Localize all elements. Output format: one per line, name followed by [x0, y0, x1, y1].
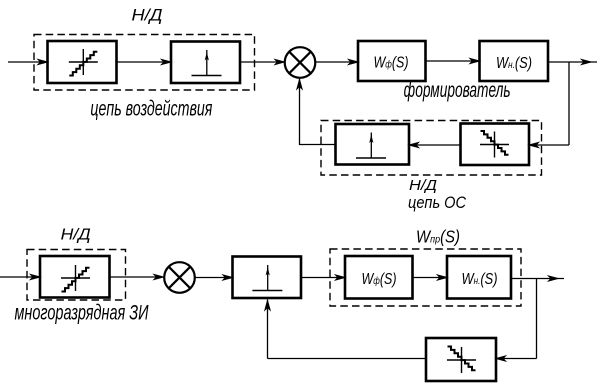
svg-text:Wн.(S): Wн.(S)	[496, 55, 532, 72]
block U3: Wф(S)	[345, 256, 413, 299]
wire: U3 to U4	[413, 275, 448, 280]
wire: A2 to summing junction S1	[240, 59, 285, 64]
wire: A1 to A2	[117, 59, 172, 64]
block A2: impulse element (sampler)	[171, 42, 240, 84]
wire: S1 to W1	[316, 59, 359, 64]
impulse B2 symbol	[252, 265, 282, 291]
dashed box: bottom input Н/Д group	[27, 250, 126, 301]
dashed box: input Н/Д group	[34, 35, 255, 91]
wire: F1 to F2	[409, 142, 461, 147]
block F1: feedback quantizer	[461, 124, 530, 166]
dashed box: W group	[330, 249, 521, 306]
wire: B2 to U3	[301, 275, 345, 280]
svg-text:цепь воздействия: цепь воздействия	[90, 97, 212, 120]
block U2: Wн(S)	[480, 41, 549, 81]
wire: output of U4 to the right with arrow	[511, 276, 564, 281]
wire: U1 to U2	[426, 58, 480, 63]
block B1: multi-bit quantizer	[40, 256, 110, 298]
block U1: Wф(S)	[358, 41, 426, 81]
block U4: Wн(S)	[447, 256, 511, 299]
impulse F2 symbol	[356, 133, 386, 159]
wire: branch into feedback quantizer F3	[496, 356, 537, 361]
wire: input to quantizer A1	[8, 59, 48, 64]
block F2: feedback impulse element	[336, 124, 410, 165]
svg-text:формирователь: формирователь	[404, 79, 511, 102]
dashed box: feedback Н/Д group	[321, 121, 542, 176]
wire: branch down from bottom output node	[536, 279, 538, 359]
quantizer F1 symbol	[480, 131, 509, 158]
svg-text:Wф(S): Wф(S)	[362, 271, 397, 288]
summing junction S2	[164, 262, 195, 293]
wire: branch into feedback quantizer F1	[529, 142, 569, 147]
wire: branch down from output node	[568, 62, 570, 145]
svg-text:Н/Д: Н/Д	[409, 177, 437, 194]
svg-text:Wф(S): Wф(S)	[374, 54, 409, 71]
block A1: multi-level quantizer	[48, 41, 117, 83]
summing junction S1	[285, 47, 316, 78]
wire: input to quantizer B1	[0, 274, 40, 279]
wire: F3 back up into bottom of impulse B2	[265, 300, 426, 359]
wire: S2 to impulse B2	[196, 275, 233, 280]
svg-text:Wпр(S): Wпр(S)	[416, 227, 460, 247]
quantizer B1 symbol	[61, 265, 90, 292]
impulse A2 symbol	[192, 50, 222, 76]
quantizer F3 symbol	[447, 347, 476, 374]
block F3: feedback quantizer	[426, 338, 496, 381]
svg-text:цепь ОС: цепь ОС	[408, 193, 467, 212]
block B2: impulse element	[233, 257, 302, 299]
svg-text:многоразрядная ЗИ: многоразрядная ЗИ	[15, 302, 150, 325]
wire: B1 to summing junction S2	[110, 274, 164, 279]
wire: output of U2 to the right with arrow	[548, 59, 597, 64]
svg-text:Н/Д: Н/Д	[132, 6, 163, 25]
quantizer A1 symbol	[69, 49, 98, 76]
svg-text:Н/Д: Н/Д	[61, 227, 91, 244]
svg-text:Wн.(S): Wн.(S)	[462, 271, 498, 288]
wire: F2 back up to summing junction S1	[297, 79, 336, 146]
